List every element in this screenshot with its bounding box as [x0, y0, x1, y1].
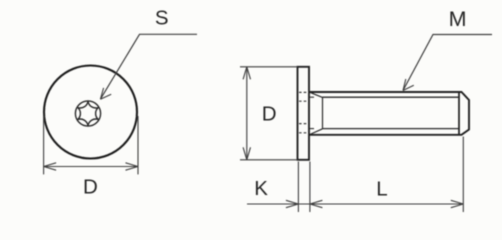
shank outline (major diameter) with chamfered point	[309, 92, 469, 135]
thread runout diagonal (top)	[310, 92, 323, 97]
head outline circle (front view)	[44, 66, 137, 159]
arrowhead of M leader	[403, 79, 414, 91]
arrowhead right of L dimension	[451, 200, 464, 207]
thread end vertical line at point	[458, 92, 460, 135]
thread start vertical line	[322, 97, 324, 129]
thread root stub at head (top)	[310, 96, 314, 98]
arrowhead bottom of D dimension (side view)	[243, 147, 250, 160]
thread runout diagonal (bottom)	[310, 129, 323, 135]
arrowhead right of D dimension (front view)	[126, 163, 139, 170]
svg-text:M: M	[449, 7, 467, 31]
thread root line (bottom)	[323, 128, 460, 130]
arrowhead top of D dimension (side view)	[243, 67, 250, 80]
dimension line L	[310, 203, 463, 205]
hidden recess line (top) in head	[299, 100, 308, 102]
arrowhead of K dimension	[286, 200, 299, 207]
thread root stub at head (bottom)	[310, 128, 314, 130]
dimension line D (front view)	[44, 166, 138, 168]
head (side view)	[298, 67, 310, 160]
thread root line (top)	[323, 96, 460, 98]
hidden thread line (bottom) in head	[299, 132, 308, 134]
extension line K right / L left	[309, 162, 311, 213]
arrowhead left of L dimension	[310, 200, 323, 207]
svg-text:S: S	[155, 7, 169, 30]
dimension line D (side view)	[246, 67, 248, 160]
torx recess circle	[75, 101, 100, 126]
dimension line K	[247, 203, 310, 205]
extension line right of D (front view)	[137, 116, 139, 174]
extension line bottom of D (side view)	[240, 159, 298, 161]
hidden thread line (top) in head	[299, 91, 308, 93]
leader line M	[403, 35, 492, 91]
svg-text:D: D	[83, 175, 98, 198]
torx recess star	[77, 101, 98, 126]
svg-text:L: L	[376, 177, 387, 200]
leader line S	[100, 34, 197, 99]
extension line L right	[462, 137, 464, 213]
svg-text:K: K	[254, 177, 268, 200]
extension line top of D (side view)	[240, 66, 298, 68]
extension line left of D (front view)	[43, 116, 45, 174]
arrowhead of S leader	[100, 88, 111, 99]
arrowhead left of D dimension (front view)	[44, 163, 57, 170]
svg-text:D: D	[262, 103, 277, 126]
hidden recess line (bottom) in head	[299, 123, 308, 125]
extension line K left	[297, 162, 299, 213]
